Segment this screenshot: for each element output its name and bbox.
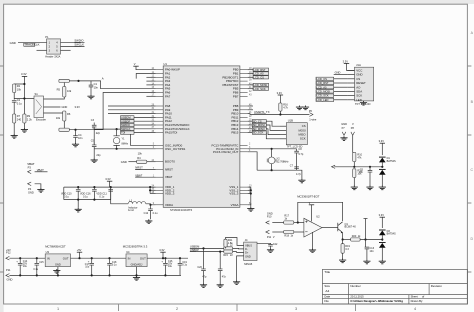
resistor R4 10k BOOT0 <box>137 160 147 163</box>
wire LCD_A0 to J1A <box>334 86 348 88</box>
ground flag decoupling bank <box>77 200 79 208</box>
wire PB to LCD_RST <box>248 69 253 71</box>
svg-text:Revision: Revision <box>431 284 442 288</box>
svg-text:4: 4 <box>414 307 416 311</box>
capacitor C3 22p <box>93 123 95 126</box>
wire R11 to GND <box>353 178 355 186</box>
port P3 VBAT <box>28 170 32 174</box>
regulator U3 body <box>45 254 70 267</box>
wire PA2 stub <box>146 76 155 78</box>
resistor R5 pullup A <box>63 87 66 98</box>
svg-text:Size: Size <box>324 284 330 288</box>
svg-text:LCD_RST: LCD_RST <box>254 68 266 72</box>
diode D4 BAT54 <box>381 240 383 241</box>
U1 pin 12 PA2 <box>151 75 170 79</box>
svg-text:P12: P12 <box>6 251 11 255</box>
U1 pin 19 PB1 <box>233 72 252 76</box>
op-amp U2 triangle <box>304 218 322 237</box>
wire U2 gnd pin <box>312 232 314 248</box>
svg-text:C22: C22 <box>273 243 278 246</box>
wire R9 to GND <box>23 123 25 128</box>
U1 pin 48 VDD_3 <box>151 192 174 196</box>
svg-text:32.768kHz: 32.768kHz <box>277 160 290 163</box>
U1 pin 26 PB13 <box>231 123 252 127</box>
wire USART1_TX long <box>248 113 310 116</box>
U1 pin 14 PA4 <box>151 83 170 87</box>
wire R4 to BOOT0 <box>128 161 136 163</box>
svg-text:R7: R7 <box>17 114 21 118</box>
wire caps left rail to GND <box>93 127 95 145</box>
svg-text:10u: 10u <box>23 265 28 268</box>
ground flag P7 <box>340 136 347 140</box>
wire feedback loop <box>298 202 343 222</box>
svg-text:IN: IN <box>128 256 131 260</box>
svg-text:D+: D+ <box>245 252 249 255</box>
svg-text:0.1u: 0.1u <box>83 195 88 198</box>
wire DP to C21 <box>219 252 221 269</box>
wire D4 to GND <box>381 248 383 260</box>
wire PC14 to cap C8 <box>248 148 297 150</box>
wire D2 to GND <box>381 175 383 186</box>
svg-text:USART1_TX: USART1_TX <box>254 110 270 114</box>
capacitor C15 <box>36 257 38 259</box>
svg-text:BC807-40: BC807-40 <box>345 226 357 229</box>
U1 pin 47 VSS_3 <box>229 192 252 196</box>
transistor Q1 BC807 <box>338 222 343 233</box>
U1 pin 5 OSC_IN/PD0 <box>153 143 183 147</box>
boxed net label LCD_SCK <box>253 87 269 90</box>
wire VBAT <box>135 176 155 178</box>
ground flag R11 <box>351 186 358 190</box>
svg-text:0.1u: 0.1u <box>153 212 158 215</box>
wire PB1x to SD_CS <box>248 120 253 122</box>
wire U3 GND to rail <box>57 267 59 276</box>
U1 pin 24 VDD_1 <box>151 185 174 189</box>
power 3.3V at J1A <box>344 62 349 64</box>
svg-text:0.1u: 0.1u <box>182 263 187 266</box>
title block <box>322 269 467 304</box>
svg-text:4.7p: 4.7p <box>298 153 303 156</box>
wire USBDP row <box>190 251 224 253</box>
ground flag at P4 <box>37 188 44 192</box>
U1 pin 6 OSC_OUT/PD1 <box>153 147 186 151</box>
wire R2 to C2 <box>13 93 15 100</box>
capacitor C20 47p <box>201 269 206 271</box>
svg-text:Header 3X2A: Header 3X2A <box>45 56 60 59</box>
svg-text:10k: 10k <box>17 88 22 92</box>
wire TDI to PA15 <box>134 132 156 134</box>
wire VDD rail <box>64 186 156 188</box>
wire PB9 stub <box>248 109 253 111</box>
svg-text:R20: R20 <box>352 235 357 238</box>
wires SD bus jogs <box>266 121 280 126</box>
boxed net label SD_CS <box>252 120 266 123</box>
boxed net label TDI <box>121 131 135 134</box>
svg-text:10k: 10k <box>138 152 143 156</box>
ground flag C22 <box>267 248 274 252</box>
wire PA4 stub <box>146 84 155 86</box>
wire P1 pin3 stub <box>37 49 47 51</box>
svg-text:3.3: 3.3 <box>345 248 349 251</box>
wire DM to C20 <box>203 248 205 269</box>
wire V+ stem <box>311 205 313 222</box>
wire R19 to GND <box>342 253 344 258</box>
capacitor C12 <box>150 205 152 209</box>
svg-text:of: of <box>422 295 424 299</box>
boxed net label SD_MISO <box>252 127 266 130</box>
svg-text:P10: P10 <box>267 216 272 219</box>
wire SWDIO to PA13 <box>134 124 156 126</box>
svg-text:C15: C15 <box>39 261 44 264</box>
svg-text:GND: GND <box>121 160 127 164</box>
junction bottom rail <box>77 199 79 201</box>
wire SWCLK to PA14 <box>134 128 156 130</box>
U1 pin 37 PA14/TCK/SWCLK <box>151 127 189 131</box>
wire R17 to +input <box>294 222 304 224</box>
svg-text:R6: R6 <box>67 112 71 116</box>
boxed net label LCD_MOSI <box>316 90 334 93</box>
ground flag below R9 <box>21 128 28 132</box>
svg-text:Drawn By:: Drawn By: <box>411 299 424 303</box>
wire PA3 stub <box>146 80 155 82</box>
svg-text:PA7: PA7 <box>165 94 171 98</box>
wire C13 to GND <box>366 249 368 260</box>
wire J4 shield cap <box>257 243 271 244</box>
ground flag U2 <box>309 248 316 252</box>
capacitor C16 polarized <box>164 257 166 259</box>
port P8 (V) <box>351 132 355 136</box>
capacitor C19 <box>179 257 181 259</box>
svg-text:LCD_A0: LCD_A0 <box>317 85 328 89</box>
svg-text:1mH: 1mH <box>128 208 134 212</box>
boxed net label LCD_MOSI <box>253 83 269 86</box>
svg-text:R18: R18 <box>284 235 289 238</box>
svg-text:TDI: TDI <box>121 131 126 135</box>
junction emitter node <box>342 238 344 240</box>
boxed net label LCD_SCK <box>316 94 334 97</box>
svg-text:U1B: U1B <box>288 119 293 123</box>
ground flag D4 <box>379 260 386 264</box>
svg-text:SWDIO: SWDIO <box>121 123 130 127</box>
U1 pin 15 PA5 <box>151 87 170 91</box>
boxed net label LCD_CS <box>253 76 269 79</box>
svg-text:LCD_LED: LCD_LED <box>317 98 329 102</box>
svg-text:3.3V: 3.3V <box>379 213 385 217</box>
U1 pin 21 PB10 <box>231 112 252 116</box>
power 3.3V out <box>160 251 165 253</box>
junction B line <box>74 129 76 131</box>
U1 pin 8 VSSA <box>231 203 251 207</box>
capacitor C22 shield <box>268 244 273 246</box>
U1 pin 22 PB11 <box>232 115 253 119</box>
wire R16 to USART line <box>279 111 281 114</box>
capacitor C21 47p <box>218 269 223 271</box>
svg-text:VSS_3: VSS_3 <box>229 192 238 196</box>
wire C17 to rail <box>91 265 93 275</box>
svg-text:P4: P4 <box>28 187 32 191</box>
wire PB8 stub <box>248 105 253 107</box>
wire DM to USB D- <box>233 247 244 250</box>
power 3.3V at VDD rail <box>107 180 112 182</box>
U1 pin 3 PC14-OSC32_IN <box>216 147 251 151</box>
U1 pin 18 PB0 <box>233 68 252 72</box>
capacitor C5 22p <box>93 142 95 145</box>
wire crystal bottom rail <box>271 164 273 170</box>
wire PB to LCD_CS <box>248 76 253 78</box>
svg-text:USBDM: USBDM <box>121 116 131 120</box>
resistor R3 on A line <box>59 79 69 82</box>
boxed net label LCD_CS <box>316 77 334 80</box>
svg-text:2.2k: 2.2k <box>27 118 33 122</box>
svg-text:BAT54S: BAT54S <box>387 160 396 163</box>
ground flag below C1 <box>90 87 92 95</box>
U1 pin 34 PA13/TMS/SWDIO <box>151 123 190 127</box>
wire P1 pin5 SWCLK <box>61 46 85 48</box>
U1 pin 9 VDDA <box>153 203 173 207</box>
port P6 1-wire <box>309 113 313 117</box>
resistor R15 22 on DP <box>224 250 233 253</box>
junction feedback <box>297 221 299 223</box>
ground flag crystal Y2 <box>298 179 305 183</box>
resistor R9 2.2k <box>23 114 26 123</box>
wire A line to corner <box>69 81 155 89</box>
wire U4 GND to rail <box>136 267 138 276</box>
svg-text:3.3V: 3.3V <box>343 59 349 63</box>
ground flag J4 <box>233 280 240 284</box>
wire PB1x to SD_MISO <box>248 128 253 130</box>
wire P8 to R10 <box>353 135 355 152</box>
wire PA1 stub <box>136 74 155 79</box>
wire OSC_OUT path bottom <box>94 148 155 150</box>
J1A pin stubs <box>347 69 354 71</box>
svg-text:4.7p: 4.7p <box>296 173 301 176</box>
wire D1 to node <box>381 162 383 167</box>
svg-text:22p: 22p <box>96 154 101 157</box>
svg-text:20.11.2015: 20.11.2015 <box>350 295 364 299</box>
wire VBUS to R21 top <box>226 238 244 246</box>
port P11 V input <box>266 230 270 233</box>
svg-text:File: File <box>324 299 329 303</box>
svg-text:10u: 10u <box>168 265 173 268</box>
svg-text:2: 2 <box>176 307 178 311</box>
capacitor C16 decoupling <box>93 187 95 189</box>
wire PA8 <box>108 105 156 107</box>
svg-text:VBAT: VBAT <box>135 173 142 177</box>
svg-text:10u: 10u <box>85 265 90 268</box>
USB connector J4 body <box>244 242 257 260</box>
svg-text:IN: IN <box>47 256 50 260</box>
svg-text:OUT: OUT <box>63 256 69 260</box>
MCU U1 STM32F103 body <box>163 66 240 207</box>
svg-text:3.3V: 3.3V <box>277 91 283 95</box>
wires VSS pins to bus <box>248 186 251 188</box>
svg-text:OUT: OUT <box>140 256 146 260</box>
ground flag at J1A <box>360 101 367 105</box>
svg-text:1: 1 <box>57 307 59 311</box>
capacitor C2 <box>12 100 17 102</box>
crystal Y1 body <box>113 137 120 143</box>
svg-text:S1: S1 <box>35 92 39 96</box>
wire LCD_MOSI to J1A <box>334 90 348 92</box>
boxed net label LCD_LED <box>316 98 334 101</box>
ground flag below C4 <box>75 138 77 143</box>
svg-text:3.3V: 3.3V <box>21 72 27 76</box>
wire V port to clamp node <box>334 166 354 168</box>
svg-text:SCK: SCK <box>300 137 306 141</box>
junction crystal top <box>116 128 118 130</box>
wire 3.3V to VCC pin <box>347 63 355 70</box>
svg-text:P1: P1 <box>45 35 49 39</box>
connector P1 body <box>47 39 61 54</box>
U1 pin 28 PB15 <box>231 131 252 135</box>
svg-text:STM32F103C8T6: STM32F103C8T6 <box>170 208 193 212</box>
junction VDD rail caps <box>77 186 79 188</box>
U1 pin 1 VBAT <box>153 175 173 179</box>
U1 pin 33 PA12 <box>151 119 172 123</box>
svg-text:0.1u: 0.1u <box>99 195 104 198</box>
wire 3.3V to D3 <box>381 217 383 228</box>
wire clamp node 1 <box>354 166 382 168</box>
power 3.3V clamp 1 <box>380 142 385 144</box>
wire GND pin <box>334 74 348 76</box>
svg-text:A4: A4 <box>325 289 329 293</box>
ground flag D2 <box>379 186 386 190</box>
U1 pin 27 PB14 <box>231 127 252 131</box>
diode D1 BAT54 <box>379 158 386 163</box>
boxed net label USBDP <box>121 120 135 123</box>
svg-text:10n: 10n <box>94 85 99 89</box>
svg-text:C12: C12 <box>144 212 149 215</box>
resistor R7 <box>13 114 16 123</box>
junction USART pullup <box>279 113 281 115</box>
port P4 GND <box>28 182 32 186</box>
boxed net label SD_MOSI <box>252 123 266 126</box>
boxed net label SWCLK <box>121 127 135 130</box>
svg-text:Encoder: Encoder <box>36 117 46 121</box>
junction DP filter <box>219 251 221 253</box>
svg-text:V: V <box>352 122 354 126</box>
wire PB to LCD_A0 <box>248 73 253 75</box>
U1 pin 39 PB3/TDO <box>226 79 252 83</box>
svg-text:GND: GND <box>341 122 347 126</box>
resistor R8 on B line <box>59 128 69 131</box>
wire PB to LCD_MOSI <box>248 84 253 86</box>
svg-text:LCD_CS: LCD_CS <box>317 77 328 81</box>
capacitor C11 decoupling <box>110 187 112 189</box>
svg-text:47p: 47p <box>202 276 207 279</box>
U1 pin 11 PA1 <box>152 72 171 76</box>
U1 pin 2 PC13-TAMPER-RTC <box>212 143 251 147</box>
ground flag C13 <box>363 260 370 264</box>
wire P10 to R17 <box>272 222 283 224</box>
svg-text:VDDA: VDDA <box>165 203 173 207</box>
wire PB1x to SD_SCK <box>248 132 253 134</box>
U1 pin 23 VSS_1 <box>229 185 252 189</box>
wire U4 out <box>147 257 188 259</box>
svg-text:PB7: PB7 <box>233 94 239 98</box>
svg-text:SWCLK: SWCLK <box>121 127 131 131</box>
svg-text:SD_SCK: SD_SCK <box>253 131 264 135</box>
wire OSC_IN path top <box>94 129 155 145</box>
wire encoder left connections <box>14 98 34 100</box>
svg-text:10n: 10n <box>370 250 375 253</box>
wire 3.3V stem to VDD rail <box>109 181 111 187</box>
wire 3.3V stem <box>162 252 164 258</box>
svg-text:0.1u: 0.1u <box>112 263 117 266</box>
svg-text:3.3V: 3.3V <box>105 177 111 181</box>
wire inductor to VDDA <box>146 204 156 205</box>
wire emitter node to R19 <box>342 240 344 244</box>
diode D2 BAT54 <box>381 167 383 168</box>
svg-text:1.5k: 1.5k <box>228 242 233 245</box>
svg-text:10n: 10n <box>78 136 83 140</box>
crystal Y2 <box>268 157 275 164</box>
resistor R6 pulldown B <box>63 111 66 121</box>
wire R18 to -input <box>294 231 304 233</box>
capacitor C4 <box>75 130 77 136</box>
connector J1A body <box>355 67 374 101</box>
svg-text:A: A <box>102 77 104 81</box>
svg-text:C:\Altium Designer\..\Midimast: C:\Altium Designer\..\Midimaster V2.Dig <box>350 299 403 303</box>
wire P3 to VBAT label <box>35 171 48 173</box>
wire LCD_LED to J1A <box>334 99 348 101</box>
capacitor C10b <box>369 167 371 171</box>
wire Q1 emitter down <box>342 233 344 240</box>
regulator U4 body <box>126 254 147 267</box>
wire crystal top to PC14 line <box>271 149 273 157</box>
power 3.3V pullup <box>278 94 283 96</box>
svg-text:LCD_MOSI: LCD_MOSI <box>254 83 268 87</box>
wire J4 GND to flag <box>237 256 244 280</box>
junction DM filter <box>202 247 204 249</box>
wire VSSA to bus <box>248 203 251 205</box>
wire PA9 <box>108 109 156 111</box>
boxed net label USBDM <box>121 116 135 119</box>
svg-text:1-wire: 1-wire <box>309 117 317 121</box>
svg-text:Date: Date <box>324 295 330 299</box>
svg-text:0.1u: 0.1u <box>17 101 23 105</box>
svg-text:R15: R15 <box>223 254 228 257</box>
svg-text:P11: P11 <box>6 268 11 272</box>
wire encoder pin A row <box>44 97 65 99</box>
svg-text:U1: U1 <box>163 62 167 66</box>
wire P11 to R18 <box>272 231 283 233</box>
wire C19 to rail end <box>179 265 181 275</box>
wire decoupling bottom rail <box>63 187 65 200</box>
wire DP to USB D+ <box>233 251 244 254</box>
wire PB1x to SD_MOSI <box>248 124 253 126</box>
capacitor C14 polarized <box>19 257 21 259</box>
U1 pin 45 PB8 <box>233 104 252 108</box>
ground flag C20 <box>200 283 207 287</box>
resistor R18 <box>284 230 294 233</box>
zone tick marks left <box>0 66 4 272</box>
wire V to PA0 <box>136 66 156 70</box>
wire C21 to GND <box>219 271 221 284</box>
U1 pin 25 PB12 <box>231 119 252 123</box>
wire C14 to rail <box>19 265 21 275</box>
svg-text:PB15: PB15 <box>231 131 238 135</box>
svg-text:P11: P11 <box>267 236 272 239</box>
junction A line <box>77 80 79 82</box>
wire 5V stem <box>79 252 81 258</box>
port V at clamp node <box>332 165 336 168</box>
wire C15 to rail <box>36 265 38 275</box>
U1 pin 16 PA6 <box>151 91 170 95</box>
capacitor C8 4.7p <box>296 149 298 151</box>
wire R20 to clamp node 2 <box>360 239 382 241</box>
wire C18 to rail <box>109 265 111 275</box>
